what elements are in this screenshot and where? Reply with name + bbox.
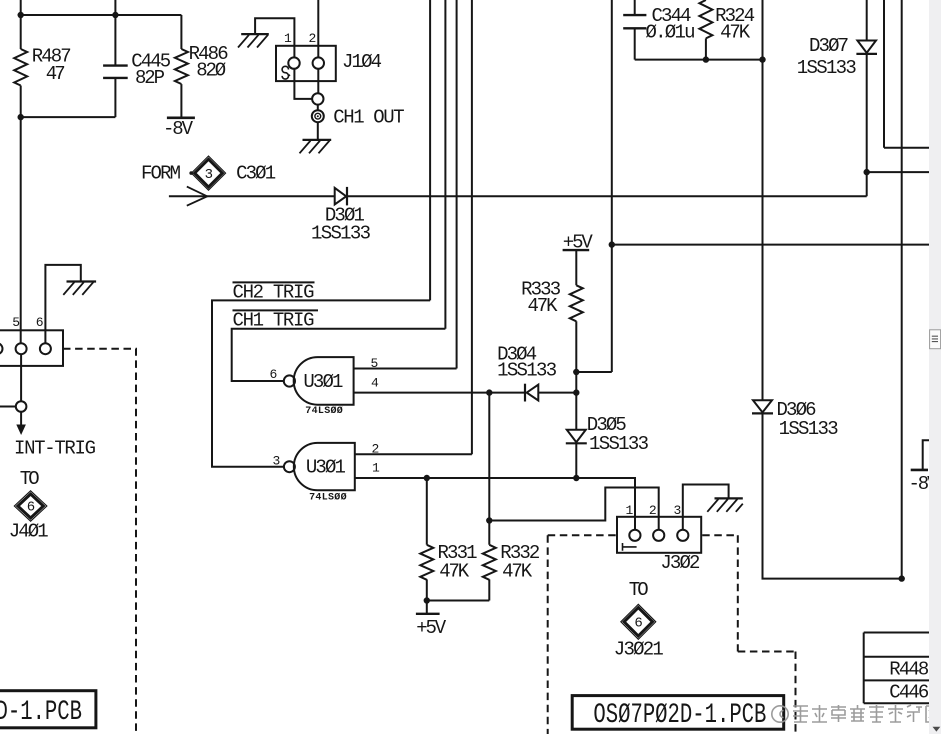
wire vertical x=884 — [883, 0, 885, 148]
wire FORM signal line y=196 — [169, 195, 867, 197]
junction dot (866.7,172.1) — [864, 169, 870, 175]
svg-text:74LSØØ: 74LSØØ — [309, 491, 347, 503]
pin circle J104-1 — [288, 57, 299, 68]
pin label 6 — [270, 367, 278, 382]
wire pin4 to D304 — [354, 392, 525, 394]
junction dot D304 node — [573, 389, 579, 395]
wire R332 bottom — [488, 579, 490, 600]
value label 1SS133 D306 — [779, 418, 839, 440]
svg-text:1: 1 — [284, 31, 292, 46]
component label D304 — [497, 343, 537, 365]
svg-text:1SS133: 1SS133 — [779, 418, 839, 440]
value label 820 — [196, 59, 226, 81]
wire trigger vertical D x=472 — [471, 0, 473, 454]
pin label 2 J302 — [649, 503, 657, 518]
pin circle left-6 — [40, 343, 51, 354]
ground GA near J104 — [238, 34, 269, 47]
svg-text:U3Ø1: U3Ø1 — [303, 371, 343, 393]
sheet diamond 6 J401 — [14, 491, 47, 521]
svg-text:82P: 82P — [135, 67, 165, 89]
part label 74LS00 a — [305, 405, 343, 417]
junction dot +5V rail — [609, 241, 615, 247]
pin circle J302-2 — [653, 530, 664, 541]
wire trigger vertical C x=457 — [456, 0, 458, 369]
connector J104 box — [276, 46, 336, 81]
junction dot (21,15) — [18, 12, 24, 18]
junction dot R333 node — [573, 369, 579, 375]
wire D304 to node — [538, 392, 576, 394]
pin label 3 — [273, 454, 281, 469]
component label J104 — [342, 51, 382, 73]
svg-text:OSØ7PØ1D-1.PCB: OSØ7PØ1D-1.PCB — [0, 697, 82, 728]
wire C344 top — [634, 0, 636, 15]
wire +5V rail horizontal y=244.6 — [612, 244, 929, 246]
value label 82P — [135, 67, 165, 89]
wire R333 bottom — [575, 321, 577, 429]
wire node to coax — [317, 105, 319, 111]
svg-text:J4Ø1: J4Ø1 — [9, 520, 49, 542]
pin label 2 — [372, 442, 380, 457]
svg-text:1SS133: 1SS133 — [589, 433, 649, 455]
svg-text:6: 6 — [27, 500, 35, 516]
svg-text:3: 3 — [273, 454, 281, 469]
wire +5V rail vertical x=612 — [611, 0, 613, 372]
svg-text:1SS133: 1SS133 — [311, 222, 371, 244]
component label D307 — [809, 35, 849, 57]
junction dot R332/J302 pin2 branch — [486, 517, 492, 523]
net label CH1 TRIG with overline — [233, 310, 315, 332]
net label J3021 — [614, 638, 664, 660]
svg-text:47K: 47K — [439, 561, 470, 583]
wire horizontal y=172.1 — [867, 171, 929, 173]
power label -8V — [163, 118, 194, 140]
wire trigger vertical B x=445 — [444, 0, 446, 329]
junction dot bus/vertical — [759, 56, 765, 62]
value label 47K R333 — [528, 295, 559, 317]
wire R486 top — [180, 15, 182, 49]
junction dot (115,15) — [112, 12, 118, 18]
node label TO J3021 — [629, 579, 649, 601]
pin label 4 — [371, 376, 379, 391]
power +5V top bar — [563, 249, 590, 251]
wire C344 bottom — [634, 28, 636, 59]
svg-text:J3Ø21: J3Ø21 — [614, 638, 664, 660]
ground GC at J302 — [707, 498, 743, 511]
svg-text:CH1 OUT: CH1 OUT — [333, 106, 405, 128]
wire stub into INT-TRIG node — [0, 406, 16, 408]
wire C445 bottom — [114, 78, 116, 117]
wire C344/R324 bottom bus — [635, 59, 763, 61]
svg-text:FORM: FORM — [141, 163, 181, 185]
svg-text:4: 4 — [371, 376, 379, 391]
junction dot R331/pin1 — [424, 475, 430, 481]
wire +5V to R333 — [575, 250, 577, 285]
junction dot pin4/R332 — [486, 389, 492, 395]
junction dot R324 — [703, 56, 709, 62]
svg-text:47K: 47K — [720, 22, 751, 44]
svg-text:47K: 47K — [528, 295, 559, 317]
capacitor C445 — [103, 66, 128, 78]
scrollbar thumb — [930, 330, 941, 349]
wire CH2 TRIG run — [212, 300, 430, 466]
svg-text:D3Ø7: D3Ø7 — [809, 35, 849, 57]
diode D305 — [566, 430, 587, 444]
value label 1SS133 D307 — [797, 57, 857, 79]
ground GD left — [63, 282, 96, 295]
component label R333 — [521, 279, 561, 301]
capacitor C344 — [623, 15, 646, 28]
power label -8 right — [909, 473, 940, 495]
svg-text:82Ø: 82Ø — [196, 59, 226, 81]
pin label 1 J302 — [626, 503, 634, 518]
resistor R331 — [420, 545, 433, 580]
net label J401 — [9, 520, 49, 542]
svg-text:3: 3 — [205, 167, 213, 183]
svg-text:1: 1 — [626, 503, 634, 518]
component label U301a — [303, 371, 343, 393]
svg-text:74LSØØ: 74LSØØ — [305, 405, 343, 417]
watermark juejin — [772, 705, 940, 722]
pin circle left-5 — [16, 343, 27, 354]
value label 47 — [46, 63, 66, 85]
wire to J302 pin2 — [489, 488, 658, 530]
svg-text:1SS133: 1SS133 — [497, 360, 557, 382]
svg-text:TO: TO — [629, 579, 649, 601]
svg-text:6: 6 — [634, 616, 642, 632]
resistor R486 — [175, 49, 188, 84]
junction dot R331 bottom — [424, 597, 430, 603]
component label R324 — [715, 5, 755, 27]
svg-text:U3Ø1: U3Ø1 — [306, 457, 346, 479]
svg-text:C3Ø1: C3Ø1 — [236, 163, 276, 185]
pin label 6 left — [36, 315, 44, 330]
wire pin1 long — [355, 478, 635, 530]
net label CH2 TRIG with overline — [233, 282, 315, 304]
table label C446 — [889, 682, 929, 704]
wire CH1 TRIG run — [232, 329, 446, 381]
svg-text:1SS133: 1SS133 — [797, 57, 857, 79]
wire J104 pin1 down and across — [294, 69, 312, 99]
power -8V right bar — [911, 469, 928, 472]
svg-text:3: 3 — [674, 503, 682, 518]
resistor R332 — [483, 545, 496, 580]
value label 47K R331 — [439, 561, 470, 583]
net label INT-TRIG — [14, 437, 96, 459]
table part list box right — [864, 633, 941, 704]
wire pin5 — [354, 368, 457, 370]
junction dot (902,578.6) — [899, 575, 905, 581]
arrowhead INT-TRIG — [16, 425, 26, 436]
dashed boundary bottom middle — [548, 535, 796, 734]
value label 47K R332 — [502, 561, 533, 583]
power -8V bar — [167, 117, 195, 120]
power label +5V bottom — [416, 617, 447, 639]
svg-text:J3Ø2: J3Ø2 — [660, 552, 700, 574]
pin label 1 J104 — [284, 31, 292, 46]
scrollbar track — [929, 0, 941, 734]
value label C445 — [131, 50, 171, 72]
pin circle INT-TRIG — [16, 401, 27, 412]
sheet diamond 3 C301 — [189, 156, 225, 190]
component label D306 — [777, 399, 817, 421]
svg-text:TO: TO — [20, 468, 40, 490]
wire long vertical x=762.5 — [762, 0, 764, 400]
wire J104 pin2 down — [317, 69, 319, 93]
wire D307 top — [866, 0, 868, 41]
pin circle J302-3 — [677, 530, 688, 541]
pin1 marker J302 — [623, 543, 637, 551]
overline CH2 — [233, 281, 315, 283]
svg-text:5: 5 — [12, 315, 20, 330]
pin circle J104-2 — [313, 57, 324, 68]
part label 74LS00 b — [309, 491, 347, 503]
wire R487 bottom — [20, 86, 22, 118]
component label D301 — [325, 204, 365, 226]
wire R331 top — [426, 478, 428, 545]
component label J302 — [660, 552, 700, 574]
wire horizontal y=147.8 — [884, 147, 929, 149]
wire vertical x=902 — [901, 0, 903, 579]
wire trigger vertical A x=430 — [429, 0, 431, 300]
connector P left box — [0, 330, 63, 366]
svg-text:47K: 47K — [502, 561, 533, 583]
dashed boundary left — [63, 349, 136, 734]
PCB name box bottom middle — [572, 696, 784, 730]
pin label 1 — [372, 461, 380, 476]
wire J302 pin3 to ground — [683, 485, 729, 530]
pin label 5 left — [12, 315, 20, 330]
svg-text:6: 6 — [270, 367, 278, 382]
node label TO J401 — [20, 468, 40, 490]
component label D305 — [587, 414, 627, 436]
resistor R324 — [699, 0, 712, 38]
svg-text:+5V: +5V — [563, 231, 594, 253]
wire coax to ground — [317, 122, 319, 140]
component label R331 — [438, 542, 478, 564]
svg-text:Ø.Ø1u: Ø.Ø1u — [646, 22, 696, 44]
wire pin6 to ground — [45, 265, 80, 343]
pin label 5 — [371, 356, 379, 371]
diode D301 — [335, 187, 347, 206]
resistor R333 — [570, 285, 583, 321]
value label R486 — [189, 43, 229, 65]
op-amp gate U301a body — [294, 357, 354, 405]
svg-text:2: 2 — [309, 31, 317, 46]
PCB name text OS07P02D-1.PCB — [593, 700, 766, 731]
svg-text:OSØ7PØ2D-1.PCB: OSØ7PØ2D-1.PCB — [593, 700, 766, 731]
wire R331/R332 bottom join — [427, 600, 490, 602]
wire rail into pin5 — [20, 117, 22, 401]
svg-text:INT-TRIG: INT-TRIG — [14, 437, 96, 459]
bubble U301b — [284, 461, 295, 472]
value label R487 — [32, 45, 72, 67]
pin label 2 J104 — [309, 31, 317, 46]
scrollbar corner arrow — [933, 727, 941, 732]
PCB name box bottom left — [0, 691, 96, 728]
net label C301 — [236, 163, 276, 185]
value label 1SS133 D304 — [497, 360, 557, 382]
junction dot D305/pin1 — [573, 475, 579, 481]
power +5V bottom bar — [416, 613, 440, 615]
diode D307 — [856, 41, 877, 54]
op-amp gate U301b body — [294, 443, 355, 490]
connector J302 box — [617, 517, 701, 553]
wire left rail vertical x=21 top — [20, 0, 22, 49]
power label +5V top — [563, 231, 594, 253]
power -8V right corner wire — [923, 440, 929, 469]
arrowhead on FORM line — [187, 187, 207, 206]
wire C445 top — [114, 0, 116, 66]
svg-text:6: 6 — [36, 315, 44, 330]
table label R448 — [889, 659, 929, 681]
pin label 3 J302 — [674, 503, 682, 518]
junction dot (21,117) — [18, 114, 24, 120]
diode D304 — [525, 384, 538, 402]
wire bottom horizontal y=117 — [21, 116, 116, 118]
svg-text:R448: R448 — [889, 659, 929, 681]
value label 47K R324 — [720, 22, 751, 44]
wire node to +5V rail riser — [576, 371, 612, 373]
wire D305 bottom — [575, 443, 577, 478]
pin circle J302-1 — [629, 530, 640, 541]
wire R324 bottom — [705, 38, 707, 59]
svg-text:47: 47 — [46, 63, 66, 85]
wire top horizontal bus y=15 — [21, 14, 182, 16]
coax bullseye CH1 OUT — [312, 110, 324, 122]
wire ground GA to J104 pin1 — [255, 18, 294, 57]
svg-text:C446: C446 — [889, 682, 929, 704]
component label C344 — [652, 5, 692, 27]
svg-text:2: 2 — [649, 503, 657, 518]
diamond digit 3 — [205, 167, 213, 183]
node label FORM — [141, 163, 181, 185]
diamond digit 6 J401 — [27, 500, 35, 516]
diamond digit 6 — [634, 616, 642, 632]
svg-text:J1Ø4: J1Ø4 — [342, 51, 382, 73]
node label CH1 OUT — [333, 106, 405, 128]
bubble U301a — [284, 375, 295, 386]
value label 1SS133 D301 — [311, 222, 371, 244]
value label 1SS133 D305 — [589, 433, 649, 455]
component label R332 — [500, 542, 540, 564]
wire pin2 — [355, 453, 472, 455]
wire D307 bottom — [866, 54, 868, 196]
pin circle left-0 — [0, 343, 3, 354]
wire D306 bottom and across — [763, 413, 902, 578]
value label 0.01u — [646, 22, 696, 44]
wire R332 top — [488, 393, 490, 545]
svg-text:1: 1 — [372, 461, 380, 476]
svg-text:+5V: +5V — [416, 617, 447, 639]
wire R331 bottom — [426, 579, 428, 613]
wire INT-TRIG arrow — [20, 412, 22, 426]
wire J104 pin2 from top — [317, 0, 319, 57]
sheet diamond 6 J3021 — [621, 604, 656, 639]
switch squiggle S in J104 — [282, 66, 290, 79]
diode D306 — [752, 400, 773, 413]
wire R486 bottom — [180, 84, 182, 117]
overline CH1 — [233, 309, 319, 311]
PCB name text left (clipped) — [0, 697, 82, 728]
pin circle CH1 node — [312, 93, 323, 104]
svg-text:-8V: -8V — [163, 118, 194, 140]
component label U301b — [306, 457, 346, 479]
resistor R487 — [14, 49, 27, 85]
ground GB below CH1 OUT — [300, 140, 332, 153]
